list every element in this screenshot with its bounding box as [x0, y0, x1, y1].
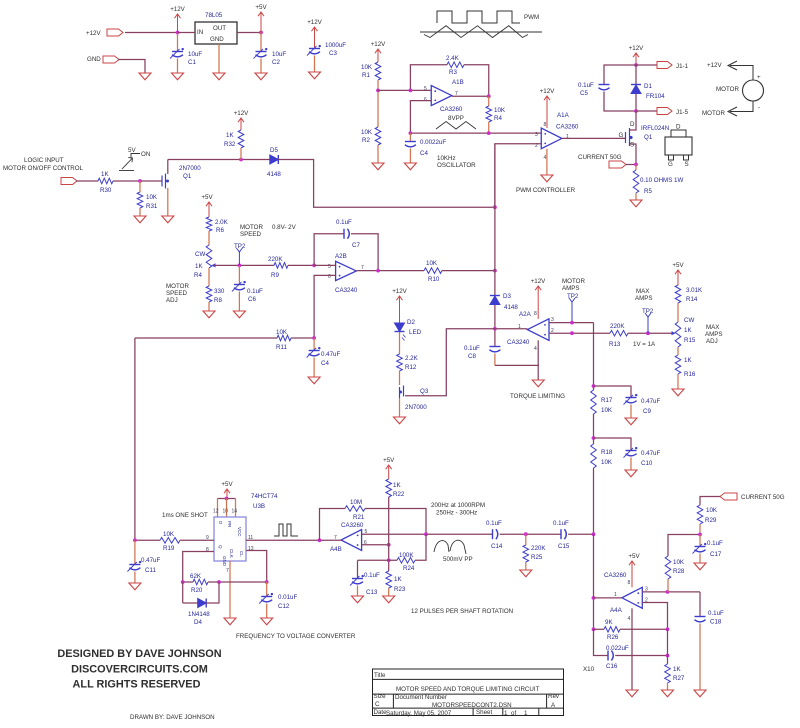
waveform triangle small — [436, 122, 476, 130]
capacitor C5 snubber loop — [604, 65, 636, 84]
svg-text:IN: IN — [197, 29, 203, 36]
ground under C11 — [129, 583, 141, 590]
svg-text:DISCOVERCIRCUITS.COM: DISCOVERCIRCUITS.COM — [71, 664, 208, 676]
wire GND to ground — [118, 60, 145, 74]
ground under R5 — [630, 200, 642, 207]
resistor R16 — [677, 347, 679, 355]
svg-text:D5: D5 — [270, 147, 278, 154]
svg-text:3.01K: 3.01K — [686, 287, 703, 294]
svg-text:1000uF: 1000uF — [325, 42, 346, 49]
svg-text:10K: 10K — [673, 559, 685, 566]
svg-text:C: C — [375, 701, 380, 708]
capacitor C11 — [133, 538, 137, 542]
svg-text:8: 8 — [534, 311, 537, 317]
svg-text:8: 8 — [206, 547, 209, 553]
wire A4A output — [594, 597, 622, 599]
svg-text:+12V: +12V — [234, 110, 249, 117]
svg-text:13: 13 — [248, 546, 254, 552]
wire A1A output to Q1 gate — [562, 137, 626, 139]
wire A2A pin2 row — [549, 332, 610, 334]
wire A4A pin3 row — [642, 591, 700, 593]
svg-text:CA3240: CA3240 — [507, 339, 530, 346]
ground under 78L05 — [213, 73, 225, 80]
ground under C10 — [625, 470, 637, 477]
potentiometer R4 motor speed adj — [206, 245, 212, 268]
svg-text:+5V: +5V — [383, 457, 395, 464]
svg-text:LOGIC INPUT: LOGIC INPUT — [24, 157, 64, 164]
svg-text:0.022uF: 0.022uF — [606, 645, 629, 652]
wire U3B vcc bus — [218, 498, 236, 500]
svg-text:+12V: +12V — [307, 19, 322, 26]
wire A2B output — [356, 270, 424, 272]
op-amp A2B — [336, 261, 357, 280]
svg-text:R19: R19 — [163, 545, 175, 552]
ground under Q3 — [394, 417, 406, 424]
ground under U3B — [224, 618, 236, 625]
svg-text:TP2: TP2 — [642, 308, 654, 315]
wire C8 to ground rail — [495, 364, 539, 366]
svg-text:0.47uF: 0.47uF — [641, 398, 660, 405]
wire filter chain vertical — [593, 323, 595, 390]
potentiometer R15 max amps adj — [675, 322, 681, 347]
wire input to R30 — [76, 180, 98, 182]
capacitor C6 — [238, 265, 240, 284]
svg-text:A2A: A2A — [519, 311, 532, 318]
svg-text:1: 1 — [504, 710, 508, 717]
svg-text:R28: R28 — [673, 568, 685, 575]
svg-text:R9: R9 — [271, 272, 279, 279]
svg-text:PWM CONTROLLER: PWM CONTROLLER — [516, 187, 576, 194]
wire triangle node row — [410, 132, 541, 134]
wire C14 to C15 — [500, 533, 561, 535]
ground under C6 — [233, 311, 245, 318]
capacitor C13 — [357, 560, 359, 578]
svg-text:R15: R15 — [684, 337, 696, 344]
svg-text:+12V: +12V — [371, 41, 386, 48]
package SOT-223 drawing — [671, 130, 686, 137]
resistor R17 — [591, 390, 597, 414]
svg-text:A4B: A4B — [330, 546, 342, 553]
wire Q3 gate from A2A output — [405, 329, 495, 396]
regulator U 78L05 — [195, 22, 237, 44]
svg-text:C3: C3 — [329, 50, 337, 57]
svg-text:5: 5 — [424, 86, 427, 92]
svg-text:14: 14 — [232, 509, 238, 515]
wire C15 to junction — [568, 533, 593, 535]
transistor Q5 IRFL024N — [635, 111, 637, 128]
resistor R3 — [447, 62, 464, 68]
svg-text:C16: C16 — [606, 663, 618, 670]
svg-text:TP2: TP2 — [234, 243, 246, 250]
svg-text:C15: C15 — [558, 543, 570, 550]
svg-text:PWM: PWM — [524, 14, 539, 21]
svg-text:0.10 OHMS 1W: 0.10 OHMS 1W — [640, 177, 683, 184]
resistor R31 — [139, 181, 141, 192]
svg-text:10K: 10K — [361, 64, 373, 71]
wire D5 to control node — [278, 160, 495, 208]
svg-text:10K: 10K — [601, 459, 613, 466]
svg-text:0.47uF: 0.47uF — [321, 351, 340, 358]
svg-text:TP2: TP2 — [567, 293, 579, 300]
svg-text:0.1uF: 0.1uF — [336, 219, 352, 226]
ground under R31 — [134, 216, 146, 223]
wire A2B pin6 down — [314, 275, 336, 338]
ground under R2 — [372, 163, 384, 170]
svg-text:R2: R2 — [362, 137, 370, 144]
svg-text:J1-5: J1-5 — [676, 109, 689, 116]
svg-text:9K: 9K — [605, 619, 613, 626]
resistor R22 — [386, 479, 392, 497]
svg-text:MOTORSPEEDCONT2.DSN: MOTORSPEEDCONT2.DSN — [432, 702, 512, 709]
svg-text:DESIGNED BY DAVE JOHNSON: DESIGNED BY DAVE JOHNSON — [57, 648, 221, 660]
ground under C3 — [309, 72, 321, 79]
wire A2A pin4 — [537, 340, 539, 380]
svg-text:C18: C18 — [710, 619, 722, 626]
wire 78L05 output — [237, 32, 261, 34]
svg-text:1: 1 — [524, 710, 528, 717]
svg-text:C7: C7 — [352, 242, 360, 249]
svg-text:10K: 10K — [276, 329, 288, 336]
wire 78L05 input — [178, 32, 196, 34]
svg-text:Size: Size — [374, 693, 387, 700]
capacitor C17 — [699, 535, 701, 547]
resistor R1 — [375, 62, 381, 80]
capacitor C16 — [594, 629, 609, 655]
svg-text:12 PULSES PER SHAFT ROTATION: 12 PULSES PER SHAFT ROTATION — [411, 608, 513, 615]
svg-text:2.2K: 2.2K — [405, 355, 419, 362]
svg-text:10K: 10K — [601, 407, 613, 414]
svg-text:Q1: Q1 — [644, 134, 653, 141]
svg-text:D: D — [676, 124, 681, 131]
wire to J1-5 — [636, 110, 657, 112]
capacitor C12 — [266, 582, 268, 596]
svg-text:1N4148: 1N4148 — [188, 611, 210, 618]
svg-text:SPEED: SPEED — [240, 231, 262, 238]
svg-text:C17: C17 — [710, 551, 722, 558]
resistor R12 — [399, 332, 401, 354]
wire A2B pin5 — [314, 264, 336, 266]
svg-text:CW: CW — [684, 317, 694, 324]
svg-text:2N7000: 2N7000 — [405, 404, 427, 411]
ground under C4 filter — [308, 377, 320, 384]
wire A1A pin4 — [546, 149, 548, 175]
ground under C4 — [404, 163, 416, 170]
resistor R11 — [135, 337, 277, 339]
wire R3 feedback loop — [410, 65, 447, 91]
title block — [373, 669, 564, 716]
svg-text:CA3240: CA3240 — [335, 287, 358, 294]
svg-text:C5: C5 — [580, 90, 588, 97]
ground under A1A — [541, 175, 553, 182]
svg-text:C13: C13 — [366, 589, 378, 596]
svg-text:CURRENT 50G: CURRENT 50G — [741, 494, 785, 501]
svg-text:10uF: 10uF — [188, 51, 202, 58]
resistor R30 — [98, 178, 113, 184]
op-amp A4A — [622, 587, 642, 608]
svg-text:62K: 62K — [190, 573, 202, 580]
flip-flop U3B 74HCT74 — [214, 517, 246, 561]
svg-text:1K: 1K — [394, 576, 402, 583]
svg-text:C1: C1 — [188, 59, 196, 66]
svg-text:+5V: +5V — [255, 4, 267, 11]
svg-text:X10: X10 — [583, 666, 595, 673]
resistor R21 feedback — [320, 509, 346, 541]
svg-text:500mV PP: 500mV PP — [443, 556, 473, 563]
svg-text:Sheet: Sheet — [476, 709, 492, 716]
svg-text:AMPS: AMPS — [635, 295, 653, 302]
svg-text:3: 3 — [535, 132, 538, 138]
svg-text:R11: R11 — [276, 344, 287, 351]
svg-text:Q3: Q3 — [420, 388, 429, 395]
ground under A2A — [532, 380, 544, 387]
svg-text:C8: C8 — [468, 353, 476, 360]
svg-text:Document Number: Document Number — [395, 694, 447, 701]
svg-text:+: + — [757, 74, 761, 81]
transistor Q3 2N7000 — [403, 386, 405, 397]
svg-text:10K: 10K — [361, 129, 373, 136]
resistor R27 — [667, 629, 669, 664]
svg-text:GND: GND — [222, 556, 227, 567]
svg-text:0.1uF: 0.1uF — [553, 520, 569, 527]
svg-text:AMPS: AMPS — [705, 331, 723, 338]
svg-text:10: 10 — [223, 509, 229, 515]
wire Q1 source to ground — [167, 188, 169, 216]
op-amp A4B — [341, 530, 362, 551]
svg-text:10M: 10M — [350, 499, 362, 506]
svg-text:200Hz at 1000RPM: 200Hz at 1000RPM — [431, 502, 485, 509]
wire 78L05 gnd pin — [218, 44, 220, 73]
svg-text:R14: R14 — [686, 296, 698, 303]
svg-text:0.47uF: 0.47uF — [141, 557, 160, 564]
connector GND — [103, 56, 119, 63]
svg-text:GND: GND — [87, 56, 101, 63]
svg-text:MOTOR: MOTOR — [240, 224, 263, 231]
op-amp A2A — [527, 319, 549, 341]
ground under C13 — [352, 596, 364, 603]
ground under C9 — [625, 418, 637, 425]
svg-text:of: of — [511, 710, 516, 717]
svg-text:D: D — [630, 121, 635, 128]
svg-text:CLK: CLK — [229, 549, 234, 558]
wire A1B pin6 — [410, 101, 431, 134]
svg-text:MAX: MAX — [636, 288, 649, 295]
svg-text:MOTOR: MOTOR — [702, 110, 725, 117]
wire Q1 drain — [167, 160, 169, 175]
svg-text:4148: 4148 — [504, 304, 518, 311]
svg-text:CL: CL — [239, 551, 244, 557]
diode D1 — [635, 65, 637, 85]
connector current 50G bottom — [720, 493, 737, 500]
ground under Q1 — [162, 216, 174, 223]
resistor R32 — [238, 130, 244, 148]
svg-text:0.1uF: 0.1uF — [486, 520, 502, 527]
resistor R9 — [274, 263, 288, 269]
svg-text:10K: 10K — [146, 194, 158, 201]
svg-text:4: 4 — [544, 155, 547, 161]
svg-text:0.8V- 2V: 0.8V- 2V — [272, 224, 297, 231]
svg-text:+12V: +12V — [707, 62, 722, 69]
capacitor C9 — [594, 386, 632, 397]
svg-text:9: 9 — [206, 535, 209, 541]
wire R30 to Q1 gate — [113, 180, 162, 182]
svg-text:R4: R4 — [494, 115, 502, 122]
capacitor C4 filter — [313, 338, 315, 350]
svg-text:DRAWN BY: DAVE JOHNSON: DRAWN BY: DAVE JOHNSON — [130, 714, 215, 721]
svg-text:S: S — [630, 142, 634, 149]
svg-text:1K: 1K — [393, 482, 401, 489]
resistor R23 — [386, 571, 392, 588]
waveform PWM square — [437, 11, 520, 23]
svg-text:C9: C9 — [643, 408, 651, 415]
resistor R25 — [525, 534, 527, 545]
svg-text:R1: R1 — [362, 72, 370, 79]
svg-text:R24: R24 — [403, 565, 415, 572]
svg-text:12: 12 — [213, 509, 219, 515]
wire on-off drain row — [168, 159, 270, 161]
svg-text:+12V: +12V — [86, 30, 101, 37]
capacitor C3 — [309, 48, 320, 50]
svg-text:D3: D3 — [503, 293, 511, 300]
svg-text:R8: R8 — [214, 297, 222, 304]
ground under R27 — [662, 690, 674, 697]
svg-text:A1A: A1A — [557, 112, 570, 119]
svg-text:D4: D4 — [194, 619, 202, 626]
wire feedback long vertical — [134, 338, 136, 540]
svg-text:1: 1 — [614, 592, 617, 598]
op-amp A1A — [541, 128, 562, 149]
led D2 — [395, 323, 405, 332]
svg-text:R23: R23 — [394, 586, 406, 593]
svg-text:10K: 10K — [426, 260, 438, 267]
wire A1A pin2 from control node — [495, 144, 541, 207]
svg-text:MOTOR: MOTOR — [716, 86, 739, 93]
svg-text:IRFL024N: IRFL024N — [641, 125, 669, 132]
resistor R8 — [206, 286, 212, 302]
svg-text:10K: 10K — [163, 531, 175, 538]
svg-text:10K: 10K — [706, 507, 718, 514]
wire R1R2 junction to A1B pin5 — [378, 89, 431, 91]
svg-text:Q1: Q1 — [183, 173, 192, 180]
svg-text:0.01uF: 0.01uF — [278, 594, 297, 601]
svg-text:74HCT74: 74HCT74 — [251, 493, 278, 500]
connector logic input — [61, 178, 77, 185]
resistor R10 — [424, 268, 442, 274]
svg-text:+5V: +5V — [221, 481, 233, 488]
wire U3B pin13 — [246, 551, 267, 583]
svg-text:D2: D2 — [407, 319, 415, 326]
resistor R18 — [591, 444, 597, 468]
svg-text:220K: 220K — [531, 545, 546, 552]
svg-text:ON: ON — [141, 151, 150, 158]
svg-text:R3: R3 — [449, 69, 457, 76]
capacitor C4 oscillator — [409, 133, 411, 141]
svg-text:220K: 220K — [268, 256, 283, 263]
svg-text:0.1uF: 0.1uF — [578, 82, 594, 89]
resistor R4 — [488, 96, 490, 106]
svg-text:LED: LED — [409, 329, 422, 336]
svg-text:0.1uF: 0.1uF — [364, 572, 380, 579]
wire R22 to pin6 node — [388, 497, 390, 571]
wire U3B pin11 output — [246, 539, 320, 541]
svg-text:0.1uF: 0.1uF — [707, 540, 723, 547]
wire A4B pin6 — [362, 544, 389, 546]
svg-text:5V: 5V — [128, 147, 136, 154]
svg-text:Saturday, May 05, 2007: Saturday, May 05, 2007 — [386, 710, 452, 717]
svg-text:Rev: Rev — [548, 693, 560, 700]
wire U3B pin8 — [183, 552, 214, 583]
wire U3B pin7 gnd — [229, 561, 231, 618]
ground under R16 — [672, 389, 684, 396]
svg-text:2.0K: 2.0K — [215, 219, 229, 226]
resistor R5 — [635, 165, 637, 171]
diode D3 — [490, 295, 500, 297]
svg-text:R26: R26 — [607, 634, 619, 641]
wire wiper row to A2B — [214, 264, 274, 266]
capacitor C14 — [492, 529, 494, 539]
connector J1-5 — [657, 108, 672, 115]
svg-text:8: 8 — [628, 580, 631, 586]
wire A2A output row — [495, 328, 528, 330]
svg-text:+5V: +5V — [201, 194, 213, 201]
svg-text:0.1uF: 0.1uF — [708, 610, 724, 617]
svg-text:MAX: MAX — [706, 324, 719, 331]
wire Q3 source to ground — [399, 398, 401, 417]
svg-text:G: G — [668, 161, 673, 168]
svg-text:10uF: 10uF — [272, 51, 286, 58]
svg-text:-: - — [758, 104, 760, 111]
capacitor C18 — [699, 592, 701, 616]
svg-text:A1B: A1B — [452, 79, 464, 86]
waveform triangle — [420, 31, 542, 33]
svg-text:A2B: A2B — [335, 253, 347, 260]
svg-text:330: 330 — [214, 288, 225, 295]
svg-text:ADJ: ADJ — [166, 297, 178, 304]
svg-text:MOTOR: MOTOR — [562, 278, 585, 285]
svg-text:R32: R32 — [224, 141, 236, 148]
svg-text:2.4K: 2.4K — [446, 55, 460, 62]
op-amp A1B — [431, 86, 452, 106]
ground under C12 — [261, 618, 273, 625]
resistor R14 — [675, 285, 681, 303]
svg-text:0.1uF: 0.1uF — [247, 288, 263, 295]
svg-text:11: 11 — [248, 535, 253, 541]
svg-text:+12V: +12V — [392, 288, 407, 295]
svg-text:250Hz - 300Hz: 250Hz - 300Hz — [436, 510, 477, 517]
svg-text:AMPS: AMPS — [562, 285, 580, 292]
resistor R2 — [375, 127, 381, 145]
svg-text:7: 7 — [226, 568, 229, 574]
svg-text:TORQUE LIMITING: TORQUE LIMITING — [510, 393, 565, 400]
svg-text:0.1uF: 0.1uF — [464, 345, 480, 352]
capacitor C15 — [560, 529, 562, 539]
wire +12V input to C1 — [125, 32, 178, 34]
svg-text:1K: 1K — [684, 357, 692, 364]
wire control node vertical — [494, 144, 496, 297]
resistor R29 — [700, 497, 720, 506]
ground under C2 — [255, 73, 267, 80]
svg-text:C2: C2 — [272, 59, 280, 66]
resistor R20 — [183, 581, 193, 583]
svg-text:R12: R12 — [405, 364, 417, 371]
svg-text:Title: Title — [374, 672, 386, 679]
svg-text:C4: C4 — [321, 360, 329, 367]
svg-text:CW: CW — [195, 251, 205, 258]
diode D5 — [270, 155, 279, 164]
svg-text:Q: Q — [218, 545, 223, 549]
svg-text:0.47uF: 0.47uF — [641, 450, 660, 457]
diode D4 — [182, 582, 184, 603]
svg-text:1K: 1K — [226, 132, 234, 139]
